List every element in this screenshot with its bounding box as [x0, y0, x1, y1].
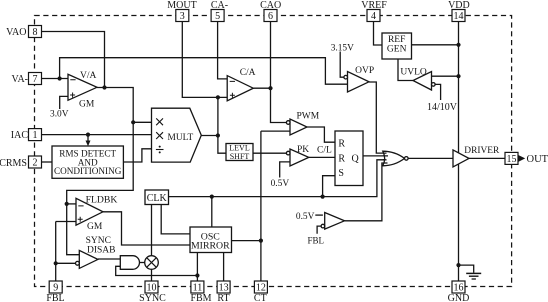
flip-flop RS latch U-FF: [335, 131, 363, 186]
svg-text:V/A: V/A: [80, 71, 97, 81]
svg-text:2: 2: [33, 158, 38, 169]
block CLK: [145, 190, 169, 205]
wire REF GEN to UVLO output: [398, 59, 413, 81]
svg-text:UVLO: UVLO: [400, 67, 427, 77]
svg-text:DISAB: DISAB: [87, 245, 116, 255]
wire LEVL SHFT output to PK inverting input: [253, 152, 287, 154]
buffer SYNC DISAB: [79, 250, 98, 268]
svg-text:VA-: VA-: [12, 74, 28, 85]
arrow into RMS DETECT: [86, 141, 91, 147]
op-amp V/A (GM): [68, 74, 97, 100]
wire SYNC pin10 through modulator to CLK: [151, 205, 153, 282]
svg-text:PK: PK: [297, 145, 309, 155]
wire FB node branch to OVP noninverting input: [60, 58, 348, 84]
svg-text:9: 9: [53, 283, 58, 294]
wire IAC branch into RMS DETECT: [87, 135, 89, 141]
svg-text:DRIVER: DRIVER: [464, 146, 500, 156]
ground symbol: [466, 273, 481, 279]
svg-text:SYNC: SYNC: [86, 236, 111, 246]
svg-text:CRMS: CRMS: [0, 158, 27, 169]
block LEVL SHFT: [226, 144, 253, 161]
wire 3.0V reference to V/A noninverting input: [60, 96, 68, 109]
amplifier +/- input marks: [70, 80, 235, 222]
pin 16 GND: [452, 281, 465, 293]
wire FBL label to comparator bubbled input: [317, 226, 321, 234]
wire MOUT pin3 to C/A noninverting input: [182, 22, 227, 98]
svg-text:FLDBK: FLDBK: [86, 194, 118, 205]
svg-text:VDD: VDD: [448, 0, 470, 11]
wire V/A output down to FLDBK and SYNC DISAB inputs: [67, 88, 134, 255]
svg-text:12: 12: [256, 283, 266, 294]
svg-text:15: 15: [507, 154, 517, 165]
svg-text:OUT: OUT: [527, 154, 548, 165]
svg-text:SYNC: SYNC: [139, 293, 166, 302]
wire MULT output node: [201, 97, 226, 153]
svg-text:CAO: CAO: [260, 0, 281, 11]
wire FLDBK output to OSC MIRROR input 2: [103, 212, 190, 245]
svg-text:Q: Q: [352, 154, 360, 165]
block RMS DETECT AND CONDITIONING: [52, 146, 123, 178]
svg-text:S: S: [338, 168, 344, 179]
component labels and values: [50, 44, 500, 256]
wire PWM output to flip-flop R1: [307, 127, 335, 142]
wire FBL pin9 to FLDBK noninverting input: [56, 222, 76, 282]
comparator FBL 0.5V: [325, 213, 345, 230]
buffer DRIVER: [453, 150, 469, 167]
pin 4 VREF: [367, 10, 380, 22]
svg-text:10: 10: [147, 283, 157, 294]
svg-text:13: 13: [219, 283, 229, 294]
svg-text:GEN: GEN: [387, 44, 407, 54]
svg-text:C/A: C/A: [240, 68, 256, 78]
pin 13 RT: [217, 281, 230, 293]
comparator PK current limit: [290, 149, 309, 166]
svg-text:CA-: CA-: [211, 0, 228, 11]
svg-text:4: 4: [371, 11, 376, 22]
svg-text:R: R: [338, 154, 345, 165]
wire UVLO input from VDD rail: [432, 75, 459, 77]
svg-text:CT: CT: [254, 293, 267, 302]
wire to FLDBK inverting input: [67, 203, 76, 205]
wire FBL comparator output to NOR input 4: [345, 163, 388, 221]
svg-text:14/10V: 14/10V: [427, 102, 458, 113]
wire GND branch to earth symbol: [459, 265, 474, 273]
wire CT ramp pin12 up to PWM noninverting input: [261, 131, 290, 281]
wire RMS DETECT output to MULT input 3: [123, 149, 151, 162]
wire flip-flop S input from clock line: [323, 176, 335, 197]
svg-text:11: 11: [193, 283, 203, 294]
pin 11 FBM: [191, 281, 204, 293]
wire NOR output to DRIVER input: [408, 157, 453, 159]
wire REF GEN supply to VDD rail: [412, 44, 459, 46]
wire UVLO hysteresis 14/10V: [435, 84, 441, 100]
wire CAO pin6 down to PWM inverting input: [271, 22, 287, 123]
wire OSC MIRROR to RT pin13: [223, 253, 225, 282]
svg-text:6: 6: [268, 11, 273, 22]
svg-text:FBL: FBL: [46, 293, 64, 302]
svg-text:5: 5: [215, 11, 220, 22]
svg-text:RT: RT: [217, 293, 229, 302]
svg-text:FBL: FBL: [308, 235, 325, 245]
pin 1 IAC: [29, 129, 42, 141]
wire C/A output to CAO node: [253, 87, 270, 89]
svg-text:CONDITIONING: CONDITIONING: [54, 166, 122, 176]
svg-text:VREF: VREF: [361, 0, 387, 11]
wire CLK output line to NOR input 3: [169, 160, 387, 197]
svg-text:MIRROR: MIRROR: [191, 240, 230, 251]
op-amp FLDBK (GM): [76, 198, 103, 225]
modulator X strokes: [147, 258, 156, 267]
gate AND sync: [120, 256, 139, 270]
pin 8 VAO: [29, 26, 42, 38]
svg-text:GM: GM: [79, 100, 95, 110]
svg-text:1: 1: [33, 130, 38, 141]
wire OVP output to NOR input 1: [369, 82, 387, 153]
wire CA- pin5 to C/A inverting input: [218, 22, 228, 79]
pin 6 CAO: [264, 10, 277, 22]
pin 2 CRMS: [29, 156, 42, 168]
IC boundary dashed border: [35, 16, 512, 287]
wire OSC MIRROR to FBM pin11: [196, 253, 198, 282]
modulator circle-X sync mixer: [145, 256, 159, 270]
svg-text:MOUT: MOUT: [167, 0, 196, 11]
svg-text:3: 3: [180, 11, 185, 22]
wire 0.5V to FBL comparator input: [315, 214, 323, 216]
pin 7 VA-: [29, 73, 42, 85]
svg-text:GM: GM: [87, 222, 103, 232]
svg-text:7: 7: [33, 74, 38, 85]
wire FBL node to SYNC DISAB bubbled input: [56, 262, 76, 264]
svg-text:8: 8: [33, 27, 38, 38]
svg-text:GND: GND: [448, 293, 470, 302]
pin 12 CT: [254, 281, 267, 293]
wire VREF pin4 to REF GEN: [374, 22, 383, 46]
flip-flop pin letters R R Q S: [338, 138, 359, 179]
pin 14 VDD: [452, 10, 465, 22]
gate NOR output logic: [383, 151, 405, 166]
block OSC MIRROR: [190, 227, 232, 253]
wire to MULT input 1: [133, 121, 151, 123]
block texts: [54, 35, 407, 251]
multiplier MULT block: [152, 108, 202, 162]
svg-text:PWM: PWM: [297, 111, 320, 121]
svg-text:CLK: CLK: [147, 193, 168, 204]
svg-text:3.0V: 3.0V: [50, 110, 69, 120]
svg-text:IAC: IAC: [11, 130, 29, 141]
wire VDD pin14 rail down to GND pin16: [458, 22, 460, 282]
svg-text:16: 16: [454, 283, 464, 294]
wire CRMS pin2 to RMS DETECT: [42, 161, 53, 163]
wire flip-flop Q output to NOR input 2: [363, 155, 388, 157]
svg-text:OVP: OVP: [355, 66, 374, 76]
svg-text:SHFT: SHFT: [230, 152, 250, 161]
wire SYNC DISAB output to AND gate: [98, 258, 120, 260]
comparator OVP: [348, 72, 370, 93]
op-amp C/A: [227, 76, 253, 101]
wire DRIVER output to OUT pin15: [469, 157, 505, 159]
NOR input stubs redrawn over gate: [383, 153, 388, 163]
pin 10 SYNC: [145, 281, 158, 293]
wire 3.15V to OVP inverting input: [340, 52, 344, 78]
svg-text:VAO: VAO: [6, 27, 26, 38]
wire 0.5V to PK noninverting input: [280, 162, 290, 178]
comparator PWM: [290, 119, 307, 135]
wire IAC pin1 to MULT input 2: [42, 134, 152, 136]
svg-text:0.5V: 0.5V: [296, 212, 315, 222]
svg-text:MULT: MULT: [168, 133, 194, 143]
arrow at OUT pin: [519, 155, 526, 162]
svg-text:0.5V: 0.5V: [271, 179, 290, 189]
wire clock line branch to OSC MIRROR top: [211, 197, 213, 227]
svg-text:FBM: FBM: [190, 293, 211, 302]
pin 15 OUT: [505, 152, 518, 164]
wire VAO pin8 to V/A output: [42, 32, 105, 88]
block REF GEN: [382, 33, 412, 59]
svg-text:R: R: [338, 138, 345, 149]
pin 9 FBL: [49, 281, 62, 293]
pin 3 MOUT: [176, 10, 189, 22]
wire AND gate output to sync modulator: [140, 262, 145, 264]
wire AND gate lower input loop to FBM line: [116, 266, 198, 275]
wire OSC MIRROR output to CT line: [232, 240, 261, 242]
wire PK output to flip-flop R2: [309, 156, 335, 158]
svg-text:3.15V: 3.15V: [331, 44, 354, 54]
pin 5 CA-: [211, 10, 224, 22]
wire CLK to OSC MIRROR input 1: [161, 205, 190, 234]
svg-text:14: 14: [454, 11, 464, 22]
wire VA- pin7 to V/A inverting input: [42, 78, 69, 80]
comparator UVLO: [413, 72, 432, 91]
svg-text:C/L: C/L: [317, 146, 332, 156]
